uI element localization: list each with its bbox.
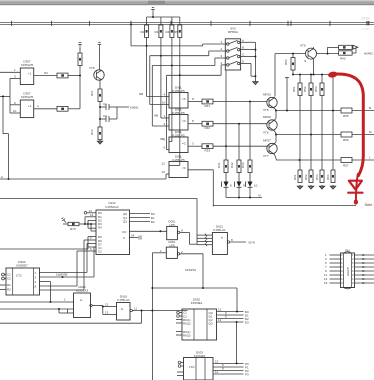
svg-text:R2: R2 xyxy=(141,30,145,34)
svg-text:LTG: LTG xyxy=(189,365,195,369)
svg-text:8P5WA: 8P5WA xyxy=(228,30,238,34)
svg-text:K155LP5: K155LP5 xyxy=(172,134,185,138)
svg-text:11: 11 xyxy=(215,370,218,374)
svg-text:A: A xyxy=(1,175,3,179)
svg-text:K155IE2: K155IE2 xyxy=(191,301,203,305)
svg-text:H0403: H0403 xyxy=(364,52,373,56)
svg-text:MP27: MP27 xyxy=(263,139,271,143)
svg-text:B: B xyxy=(242,46,244,50)
svg-text:v 1.2: v 1.2 xyxy=(362,27,369,31)
svg-text:R31: R31 xyxy=(205,104,211,108)
svg-text:R52: R52 xyxy=(303,86,307,92)
svg-text:R5: R5 xyxy=(174,30,178,34)
svg-text:C2: C2 xyxy=(98,250,102,254)
svg-text:R1: R1 xyxy=(7,283,11,287)
svg-text:K155LP5: K155LP5 xyxy=(172,111,185,115)
svg-text:D4: D4 xyxy=(98,226,102,230)
svg-text:K155AG3: K155AG3 xyxy=(105,205,118,209)
svg-text:R0(2): R0(2) xyxy=(183,322,191,326)
svg-text:VT7: VT7 xyxy=(263,154,269,158)
svg-text:11: 11 xyxy=(134,307,137,311)
svg-text:R33: R33 xyxy=(205,149,211,153)
svg-text:11: 11 xyxy=(218,318,221,322)
svg-text:K155LP5: K155LP5 xyxy=(21,95,34,99)
svg-text:12: 12 xyxy=(105,303,109,307)
svg-text:13: 13 xyxy=(162,170,166,174)
svg-text:R4: R4 xyxy=(166,30,170,34)
svg-text:10: 10 xyxy=(162,101,166,105)
svg-text:K155LA1: K155LA1 xyxy=(213,228,226,232)
svg-text:R56: R56 xyxy=(343,138,349,142)
svg-text:P3: P3 xyxy=(245,373,249,377)
svg-text:C2: C2 xyxy=(103,114,107,118)
svg-text:K155LP5: K155LP5 xyxy=(21,63,34,67)
svg-text:K155LA3: K155LA3 xyxy=(117,298,130,302)
svg-text:K555IE7: K555IE7 xyxy=(16,264,28,268)
svg-text:15: 15 xyxy=(324,281,328,285)
svg-text:R3: R3 xyxy=(155,30,159,34)
svg-text:R54: R54 xyxy=(284,59,288,65)
svg-text:K155IE5: K155IE5 xyxy=(194,354,206,358)
svg-text:LP5: LP5 xyxy=(169,244,175,248)
svg-text:R9(2): R9(2) xyxy=(183,334,191,338)
svg-text:K0601: K0601 xyxy=(130,106,139,110)
svg-text:+1: +1 xyxy=(28,104,32,108)
svg-text:R42: R42 xyxy=(230,162,234,168)
svg-text:Sele: Sele xyxy=(365,202,374,207)
svg-text:R43: R43 xyxy=(241,162,245,168)
svg-text:C1: C1 xyxy=(103,102,107,106)
svg-text:VT5: VT5 xyxy=(263,108,269,112)
svg-text:R64: R64 xyxy=(326,174,330,180)
svg-text:VT8: VT8 xyxy=(89,66,95,70)
svg-text:LP5: LP5 xyxy=(169,223,175,227)
svg-text:R51: R51 xyxy=(292,86,296,92)
svg-text:R53: R53 xyxy=(314,86,318,92)
svg-text:16: 16 xyxy=(90,213,94,217)
svg-text:NV: NV xyxy=(44,71,48,75)
svg-text:MP26: MP26 xyxy=(263,115,271,119)
svg-text:K155LP5: K155LP5 xyxy=(172,89,185,93)
svg-text:Q3: Q3 xyxy=(209,322,213,326)
svg-text:K155LP5: K155LP5 xyxy=(172,158,185,162)
svg-text:R32: R32 xyxy=(205,126,211,130)
svg-text:ШНУР: ШНУР xyxy=(346,267,350,276)
svg-text:VT6: VT6 xyxy=(300,44,306,48)
svg-text:Б3: Б3 xyxy=(245,321,249,325)
svg-text:CT2: CT2 xyxy=(16,274,22,278)
svg-text:R63: R63 xyxy=(315,174,319,180)
svg-text:10.03: 10.03 xyxy=(361,17,370,21)
svg-text:&: & xyxy=(221,236,223,240)
svg-text:Q2: Q2 xyxy=(123,220,127,224)
svg-text:12: 12 xyxy=(218,308,222,312)
svg-text:VT6: VT6 xyxy=(263,131,269,135)
svg-text:12: 12 xyxy=(162,162,166,166)
svg-text:R41: R41 xyxy=(217,162,221,168)
svg-text:R70: R70 xyxy=(70,227,76,231)
svg-text:/SYN: /SYN xyxy=(248,241,255,245)
svg-text:&: & xyxy=(121,307,123,311)
svg-text:1Ш803В: 1Ш803В xyxy=(56,273,67,277)
svg-text:B: B xyxy=(369,106,371,110)
svg-text:PN: PN xyxy=(345,249,349,253)
svg-text:10: 10 xyxy=(254,184,258,188)
svg-text:R61: R61 xyxy=(293,174,297,180)
svg-text:1DSP01: 1DSP01 xyxy=(185,268,197,272)
svg-text:C2: C2 xyxy=(7,277,11,281)
svg-text:R12: R12 xyxy=(90,129,94,135)
svg-text:R2: R2 xyxy=(7,288,11,292)
svg-text:HB: HB xyxy=(154,114,158,118)
svg-text:13: 13 xyxy=(105,311,109,315)
svg-text:VI: VI xyxy=(258,194,261,198)
svg-text:R55: R55 xyxy=(343,114,349,118)
svg-text:+1: +1 xyxy=(28,72,32,76)
svg-text:NB: NB xyxy=(139,92,143,96)
svg-text:R11: R11 xyxy=(90,90,94,96)
svg-text:12: 12 xyxy=(215,359,219,363)
svg-text:CO: CO xyxy=(122,230,127,234)
svg-text:&: & xyxy=(80,298,82,302)
svg-text:A: A xyxy=(242,38,244,42)
svg-text:Б2: Б2 xyxy=(151,220,155,224)
svg-text:R42: R42 xyxy=(340,57,346,61)
svg-text:10: 10 xyxy=(13,109,17,113)
svg-text:R62: R62 xyxy=(304,174,308,180)
svg-text:24: 24 xyxy=(131,234,135,238)
svg-text:K155LA3: K155LA3 xyxy=(76,289,89,293)
svg-text:MP25: MP25 xyxy=(263,93,271,97)
svg-text:R57: R57 xyxy=(343,164,349,168)
